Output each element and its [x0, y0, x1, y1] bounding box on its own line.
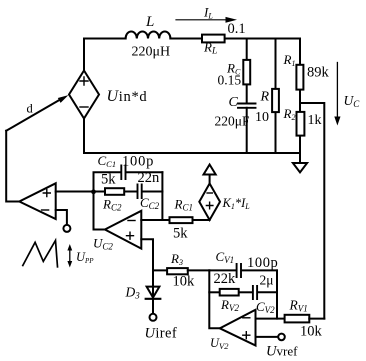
svg-text:CC2: CC2	[140, 195, 160, 211]
svg-text:R3: R3	[170, 251, 183, 267]
svg-text:K1*IL: K1*IL	[222, 196, 251, 211]
svg-text:D3: D3	[125, 285, 141, 301]
svg-text:RC2: RC2	[102, 197, 122, 213]
svg-text:L: L	[145, 14, 154, 30]
svg-text:220μF: 220μF	[215, 114, 250, 129]
svg-text:Uin*d: Uin*d	[107, 88, 148, 105]
svg-text:22n: 22n	[138, 170, 161, 186]
svg-text:CV2: CV2	[256, 299, 275, 315]
svg-text:IL: IL	[203, 5, 213, 21]
svg-text:UC2: UC2	[93, 236, 113, 252]
svg-text:R: R	[260, 90, 270, 105]
svg-text:Uvref: Uvref	[266, 344, 298, 360]
svg-text:0.1: 0.1	[228, 21, 246, 37]
svg-text:10: 10	[255, 110, 269, 125]
svg-text:R1: R1	[283, 52, 296, 68]
svg-text:10k: 10k	[173, 274, 196, 290]
svg-text:RV2: RV2	[220, 297, 239, 313]
svg-text:CV1: CV1	[216, 249, 235, 265]
svg-text:UPP: UPP	[76, 250, 94, 265]
svg-text:UC: UC	[344, 93, 361, 109]
svg-text:0.15: 0.15	[218, 73, 242, 88]
svg-text:1k: 1k	[308, 113, 322, 128]
svg-text:C: C	[229, 95, 239, 110]
svg-text:Uiref: Uiref	[145, 326, 178, 342]
svg-text:220μH: 220μH	[132, 45, 171, 60]
svg-text:2μ: 2μ	[260, 273, 274, 288]
svg-text:CC1: CC1	[98, 153, 117, 169]
svg-text:22k: 22k	[214, 271, 237, 287]
svg-text:5k: 5k	[101, 172, 116, 188]
svg-text:RC1: RC1	[174, 197, 193, 213]
svg-text:R2: R2	[283, 106, 296, 122]
svg-text:89k: 89k	[307, 65, 330, 81]
svg-text:d: d	[27, 102, 34, 116]
svg-text:RV1: RV1	[289, 298, 308, 314]
svg-text:100p: 100p	[247, 255, 278, 271]
svg-text:10k: 10k	[300, 324, 323, 340]
svg-text:5k: 5k	[173, 226, 188, 242]
svg-text:UV2: UV2	[210, 336, 229, 351]
svg-text:100p: 100p	[122, 153, 154, 169]
